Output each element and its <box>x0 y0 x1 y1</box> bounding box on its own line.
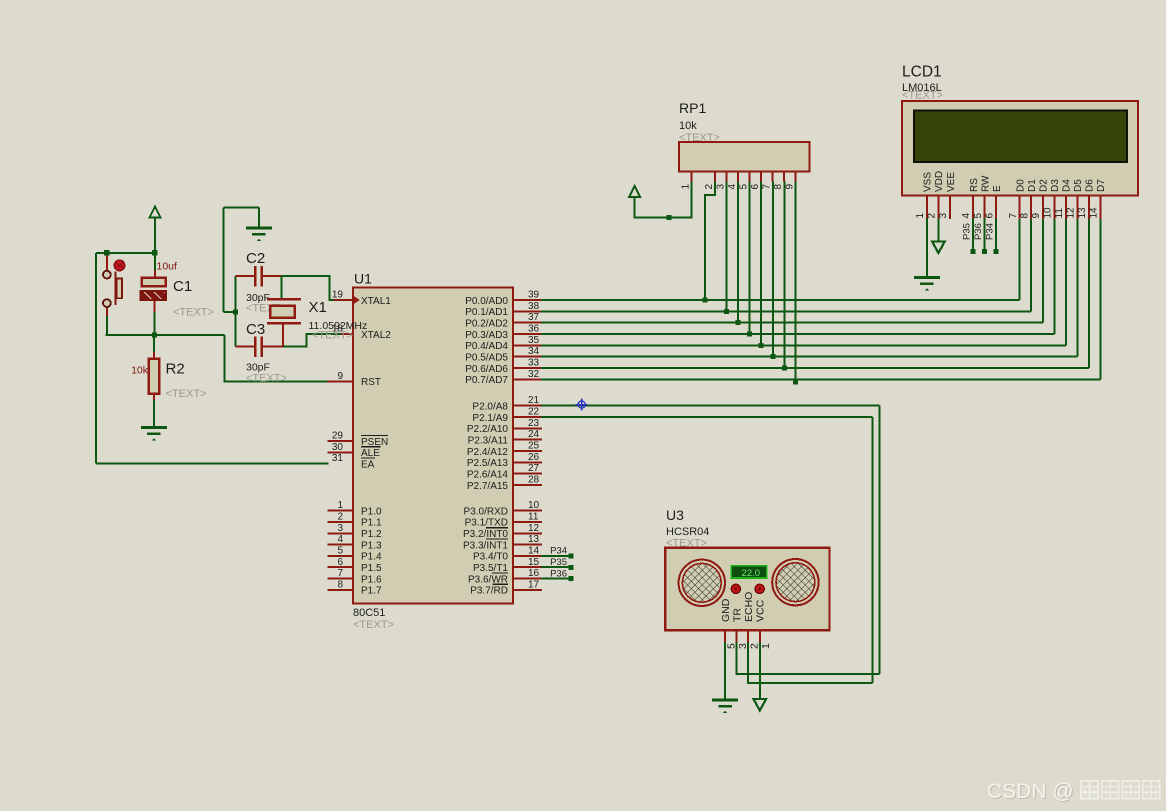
svg-text:ECHO: ECHO <box>743 592 755 622</box>
svg-text:14: 14 <box>528 545 540 556</box>
svg-text:7: 7 <box>1008 213 1019 219</box>
svg-text:<TEXT>: <TEXT> <box>666 538 707 550</box>
svg-text:80C51: 80C51 <box>353 607 385 619</box>
svg-text:P1.3: P1.3 <box>361 540 382 551</box>
svg-text:8: 8 <box>337 579 343 590</box>
svg-text:7: 7 <box>762 184 773 190</box>
svg-text:P0.4/AD4: P0.4/AD4 <box>465 341 508 352</box>
svg-text:4: 4 <box>727 184 738 190</box>
svg-text:<TEXT>: <TEXT> <box>353 619 394 631</box>
svg-text:36: 36 <box>528 324 540 335</box>
svg-text:E: E <box>992 185 1003 192</box>
svg-text:C1: C1 <box>173 278 192 295</box>
svg-text:D0: D0 <box>1016 179 1027 192</box>
svg-text:5: 5 <box>739 184 750 190</box>
svg-text:P3.7/RD: P3.7/RD <box>470 586 508 597</box>
svg-text:6: 6 <box>750 184 761 190</box>
svg-text:<TEXT>: <TEXT> <box>173 307 214 319</box>
svg-text:R2: R2 <box>166 361 185 378</box>
svg-text:P1.7: P1.7 <box>361 586 382 597</box>
svg-text:P3.3/INT1: P3.3/INT1 <box>463 540 508 551</box>
svg-text:31: 31 <box>332 453 344 464</box>
svg-text:D1: D1 <box>1027 179 1038 192</box>
svg-text:4: 4 <box>337 534 343 545</box>
svg-text:2: 2 <box>704 184 715 190</box>
svg-text:C2: C2 <box>246 250 265 267</box>
svg-text:P2.2/A10: P2.2/A10 <box>467 424 509 435</box>
svg-text:P1.0: P1.0 <box>361 506 382 517</box>
svg-text:TR: TR <box>732 608 744 622</box>
svg-text:RST: RST <box>361 377 381 388</box>
svg-text:10: 10 <box>1043 207 1054 219</box>
svg-text:8: 8 <box>1019 213 1030 219</box>
svg-text:P0.3/AD3: P0.3/AD3 <box>465 330 508 341</box>
svg-text:10: 10 <box>528 500 540 511</box>
svg-text:5: 5 <box>973 213 984 219</box>
svg-text:<TEXT>: <TEXT> <box>166 388 207 400</box>
svg-text:9: 9 <box>1031 213 1042 219</box>
svg-text:P0.7/AD7: P0.7/AD7 <box>465 375 508 386</box>
svg-text:12: 12 <box>528 523 540 534</box>
svg-text:1: 1 <box>337 500 343 511</box>
svg-text:P0.0/AD0: P0.0/AD0 <box>465 296 508 307</box>
svg-text:P35: P35 <box>962 223 973 240</box>
svg-text:P34: P34 <box>550 546 567 557</box>
svg-text:10k: 10k <box>679 120 697 132</box>
svg-text:VEE: VEE <box>946 172 957 192</box>
svg-text:P0.2/AD2: P0.2/AD2 <box>465 319 508 330</box>
svg-text:10uf: 10uf <box>157 261 178 273</box>
svg-text:D2: D2 <box>1039 179 1050 192</box>
svg-text:P34: P34 <box>985 223 996 240</box>
svg-text:P2.3/A11: P2.3/A11 <box>468 436 509 447</box>
svg-text:P2.4/A12: P2.4/A12 <box>467 447 509 458</box>
svg-text:38: 38 <box>528 301 540 312</box>
svg-text:33: 33 <box>528 358 540 369</box>
svg-text:<TEXT>: <TEXT> <box>679 132 720 144</box>
svg-text:P1.5: P1.5 <box>361 563 382 574</box>
svg-text:D5: D5 <box>1073 179 1084 192</box>
svg-text:15: 15 <box>528 557 540 568</box>
svg-text:<TEXT>: <TEXT> <box>246 373 287 385</box>
svg-text:P2.7/A15: P2.7/A15 <box>467 481 509 492</box>
svg-text:6: 6 <box>984 213 995 219</box>
svg-text:ALE: ALE <box>361 448 380 459</box>
svg-text:39: 39 <box>528 290 540 301</box>
svg-text:LCD1: LCD1 <box>902 64 942 81</box>
svg-text:P2.5/A13: P2.5/A13 <box>467 458 509 469</box>
svg-text:37: 37 <box>528 312 540 323</box>
svg-text:P0.6/AD6: P0.6/AD6 <box>465 364 508 375</box>
svg-text:<TEXT>: <TEXT> <box>312 330 353 342</box>
svg-text:D3: D3 <box>1050 179 1061 192</box>
svg-text:11: 11 <box>528 511 539 522</box>
svg-text:35: 35 <box>528 335 540 346</box>
svg-text:CSDN @: CSDN @ <box>987 780 1074 803</box>
svg-text:P1.4: P1.4 <box>361 552 382 563</box>
svg-text:RW: RW <box>980 175 991 192</box>
svg-text:22: 22 <box>528 407 540 418</box>
svg-text:24: 24 <box>528 429 540 440</box>
svg-text:3: 3 <box>737 643 749 649</box>
svg-text:RS: RS <box>969 178 980 192</box>
svg-text:10k: 10k <box>131 365 149 377</box>
svg-text:U3: U3 <box>666 507 684 523</box>
svg-text:P2.6/A14: P2.6/A14 <box>467 470 509 481</box>
svg-text:11: 11 <box>1054 208 1065 219</box>
svg-text:GND: GND <box>720 598 732 622</box>
svg-text:3: 3 <box>938 213 949 219</box>
svg-text:2: 2 <box>748 643 760 649</box>
svg-text:13: 13 <box>528 534 540 545</box>
svg-text:3: 3 <box>337 523 343 534</box>
svg-text:17: 17 <box>528 579 540 590</box>
svg-text:P3.4/T0: P3.4/T0 <box>473 552 508 563</box>
svg-text:P3.5/T1: P3.5/T1 <box>473 563 508 574</box>
svg-text:P1.6: P1.6 <box>361 574 382 585</box>
svg-text:P1.2: P1.2 <box>361 529 382 540</box>
svg-text:P3.1/TXD: P3.1/TXD <box>465 518 508 529</box>
svg-text:7: 7 <box>337 568 343 579</box>
svg-text:U1: U1 <box>354 271 372 287</box>
svg-text:VCC: VCC <box>755 599 767 622</box>
svg-text:29: 29 <box>332 431 344 442</box>
svg-text:1: 1 <box>681 184 692 190</box>
svg-text:2: 2 <box>927 213 938 219</box>
svg-text:14: 14 <box>1089 207 1100 219</box>
svg-text:X1: X1 <box>309 299 327 316</box>
svg-text:P36: P36 <box>550 568 567 579</box>
svg-text:XTAL1: XTAL1 <box>361 296 391 307</box>
svg-text:D7: D7 <box>1096 179 1107 192</box>
svg-text:P2.0/A8: P2.0/A8 <box>472 402 508 413</box>
svg-text:8: 8 <box>773 184 784 190</box>
svg-text:5: 5 <box>337 545 343 556</box>
svg-text:34: 34 <box>528 346 540 357</box>
svg-text:P0.5/AD5: P0.5/AD5 <box>465 352 508 363</box>
svg-text:P3.0/RXD: P3.0/RXD <box>464 506 508 517</box>
svg-text:13: 13 <box>1077 207 1088 219</box>
svg-text:23: 23 <box>528 418 540 429</box>
svg-text:RP1: RP1 <box>679 100 706 116</box>
svg-text:26: 26 <box>528 452 540 463</box>
svg-text:1: 1 <box>915 213 926 219</box>
svg-text:27: 27 <box>528 463 540 474</box>
svg-text:4: 4 <box>961 213 972 219</box>
svg-text:EA: EA <box>361 460 375 471</box>
svg-text:3: 3 <box>715 184 726 190</box>
svg-text:32: 32 <box>528 369 540 380</box>
svg-text:P35: P35 <box>550 557 567 568</box>
svg-text:25: 25 <box>528 441 540 452</box>
svg-text:2: 2 <box>337 511 343 522</box>
svg-text:VDD: VDD <box>934 171 945 192</box>
svg-text:16: 16 <box>528 568 540 579</box>
svg-text:P2.1/A9: P2.1/A9 <box>472 413 508 424</box>
svg-text:5: 5 <box>725 643 737 649</box>
svg-text:6: 6 <box>337 557 343 568</box>
svg-text:12: 12 <box>1066 207 1077 219</box>
svg-text:P36: P36 <box>973 223 984 240</box>
svg-text:9: 9 <box>785 184 796 190</box>
svg-text:28: 28 <box>528 475 540 486</box>
svg-text:<TEXT>: <TEXT> <box>902 90 943 102</box>
svg-text:C3: C3 <box>246 321 265 338</box>
svg-text:30: 30 <box>332 442 344 453</box>
svg-text:D6: D6 <box>1085 179 1096 192</box>
svg-text:VSS: VSS <box>923 172 934 192</box>
svg-text:9: 9 <box>337 371 343 382</box>
svg-text:1: 1 <box>760 643 772 649</box>
svg-text:D4: D4 <box>1062 179 1073 192</box>
svg-text:21: 21 <box>528 395 540 406</box>
svg-text:P0.1/AD1: P0.1/AD1 <box>465 307 508 318</box>
svg-text:22.0: 22.0 <box>742 568 761 579</box>
svg-text:HCSR04: HCSR04 <box>666 526 709 538</box>
svg-text:P1.1: P1.1 <box>361 518 382 529</box>
svg-text:19: 19 <box>332 290 344 301</box>
